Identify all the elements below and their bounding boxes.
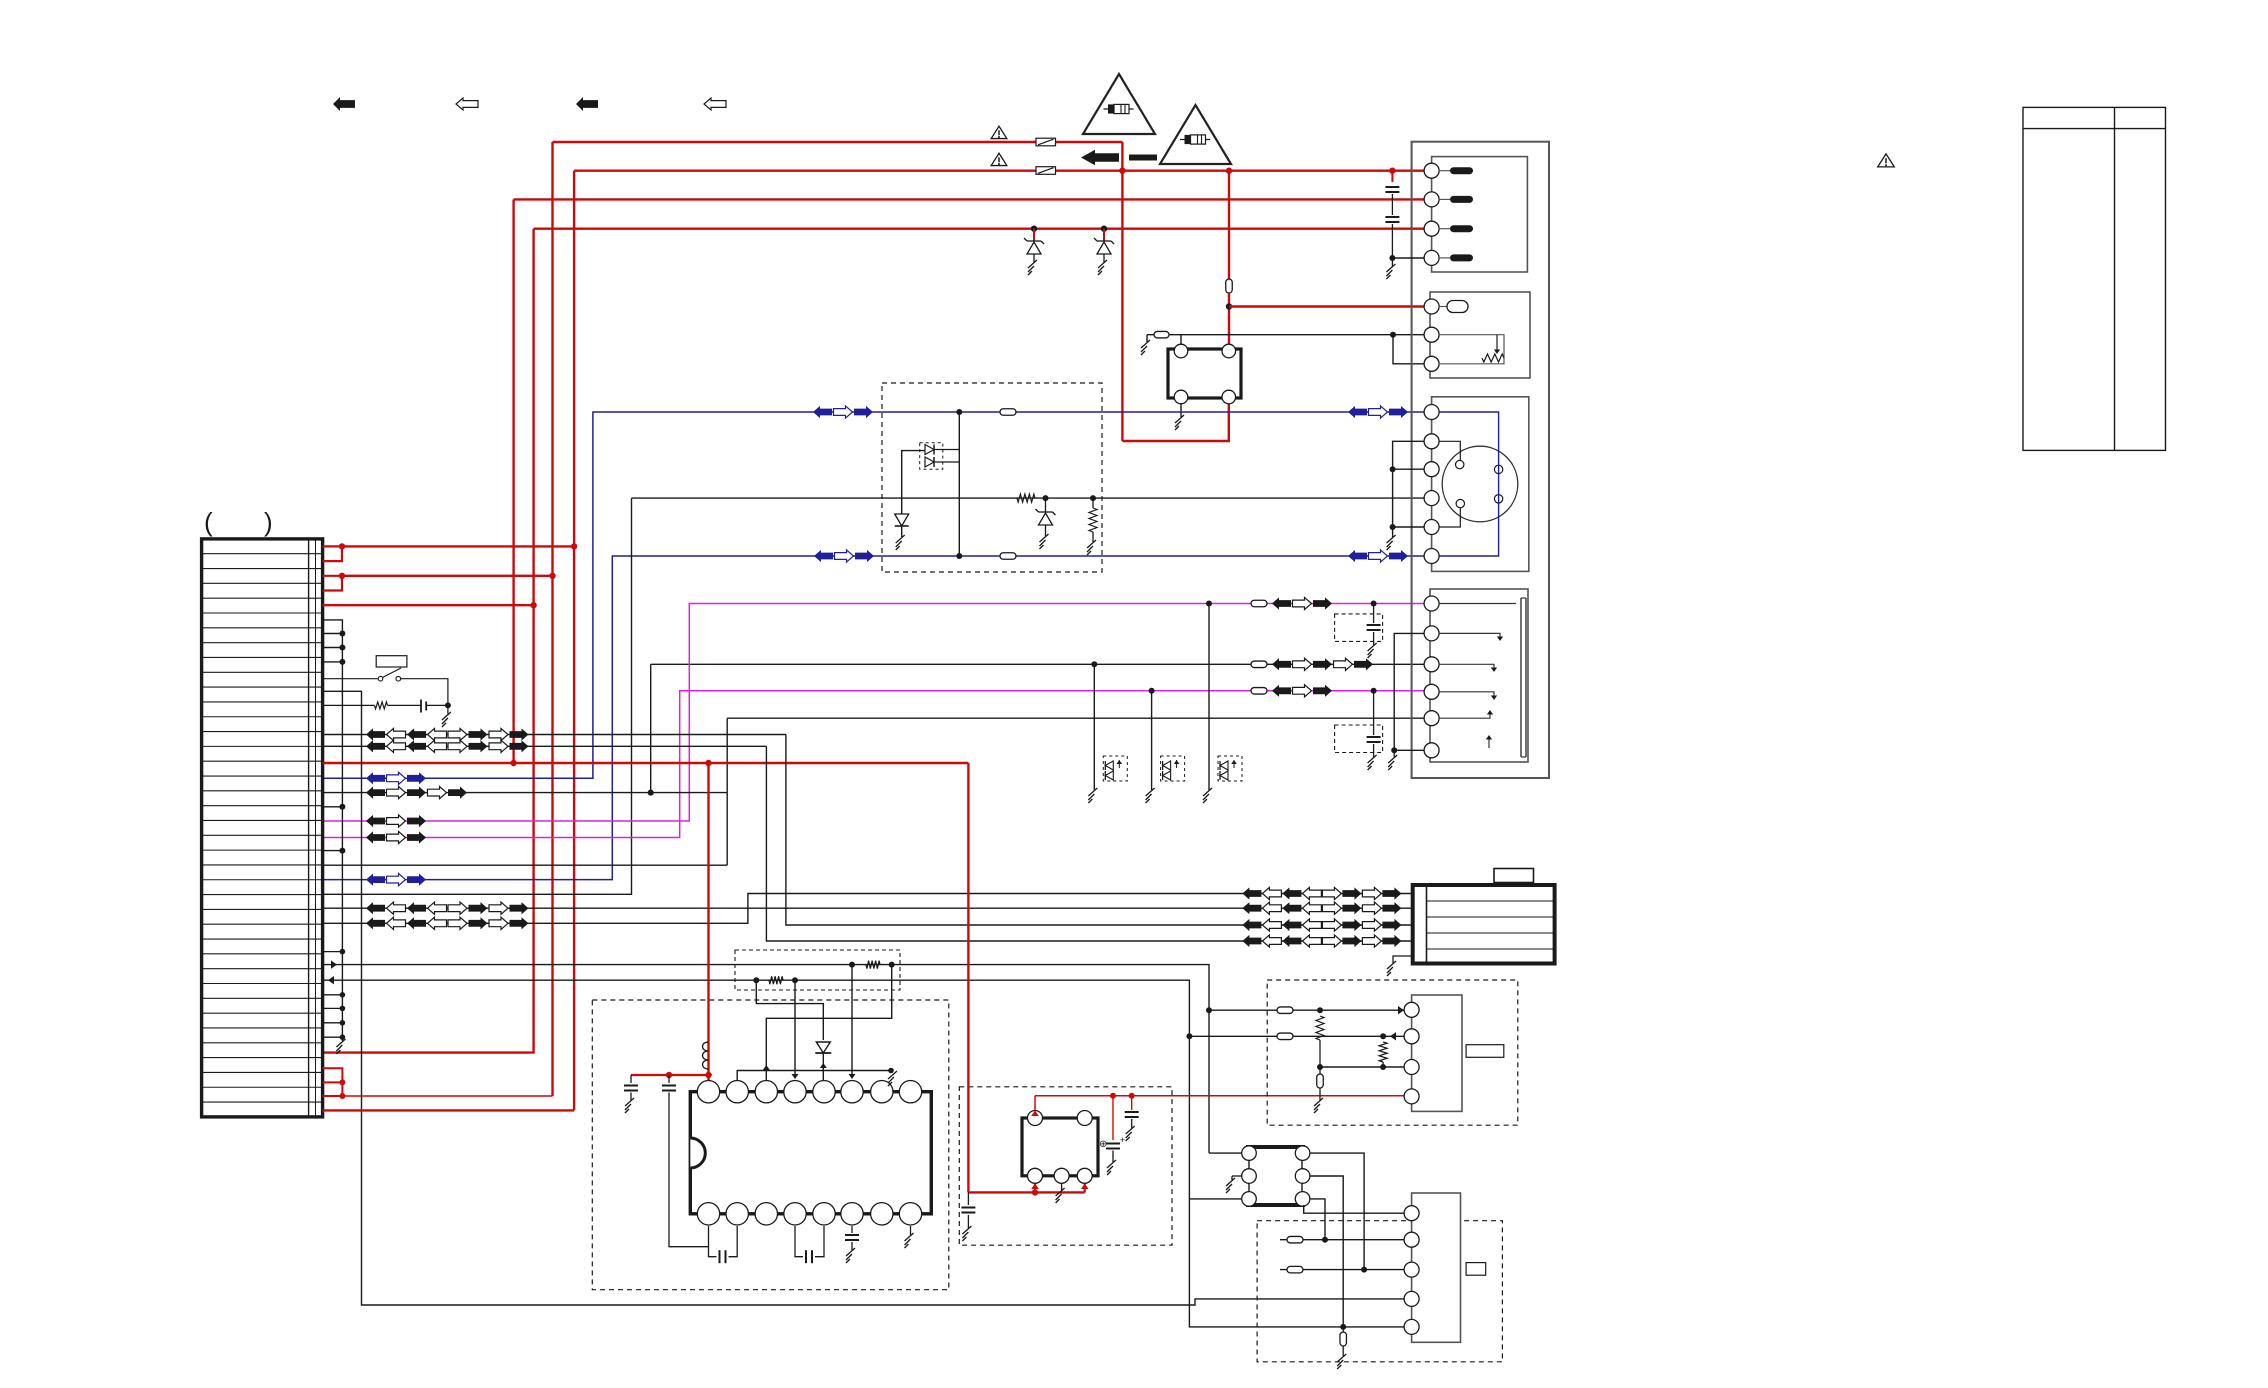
connector J1 pin 4	[1404, 1089, 1419, 1104]
capacitor CN1 2	[1391, 194, 1393, 215]
IC U1 pin bottom 15	[726, 1203, 748, 1225]
relay RY1 body	[1168, 349, 1241, 398]
wire red cap branch	[631, 1074, 709, 1076]
IC U1 pin top 7	[871, 1081, 893, 1103]
wire IC pin2 to ground rail	[737, 1071, 891, 1081]
wire red vertical to resistor and CN2 pin1	[1228, 171, 1230, 279]
wire red R4 horizontal to CN pin3	[534, 227, 1425, 229]
resistor Rb	[849, 962, 855, 968]
thermistor CN2	[1439, 335, 1504, 364]
resistor pill J2 ground	[1342, 1327, 1344, 1332]
battery warning triangle T2	[1160, 105, 1231, 164]
resistor Ra	[753, 977, 759, 983]
capacitor Cb	[668, 1075, 670, 1083]
capacitor box CN4 lower	[1335, 725, 1383, 753]
arrow train motor right 2	[1242, 902, 1261, 914]
wire red R2 horizontal to CN pin1	[574, 169, 1424, 171]
relay pin bottom-left	[1174, 390, 1188, 404]
capacitor IC b1-b2	[709, 1226, 717, 1257]
wire J1 pin2 line	[1189, 1035, 1404, 1037]
thick arrow with dash	[1081, 150, 1119, 165]
wire magenta M2	[323, 691, 1424, 838]
arrow cluster blue net2 right	[1348, 550, 1367, 562]
IC U1 pin top 6	[841, 1081, 863, 1103]
connector arrow A2	[456, 98, 478, 110]
battery warning triangle T1	[1083, 74, 1155, 134]
wire black bracket CN3	[1393, 441, 1424, 537]
CN2 pin 1	[1424, 299, 1439, 314]
resistor pill blue net1	[1000, 409, 1016, 416]
IC main dashed box	[592, 1000, 949, 1290]
wire CN1 pin4	[1392, 257, 1424, 259]
relay pin top-left	[1174, 344, 1188, 358]
wire DIN pin5 link	[1439, 508, 1460, 527]
wire black line 718 to CN4 pin5	[727, 717, 1424, 719]
wire CN4 pin3 inside	[1439, 664, 1494, 669]
IC U1 body	[690, 1092, 931, 1214]
IC U3 pin left 3	[1242, 1192, 1257, 1207]
diode on line-b	[1043, 495, 1049, 501]
wire red bus D	[323, 762, 969, 764]
switch S1	[323, 678, 378, 680]
wire opto vertical	[958, 412, 960, 556]
svg-text:+: +	[1120, 1135, 1125, 1145]
connector J2 label	[1466, 1263, 1486, 1276]
svg-text:): )	[264, 507, 273, 537]
IC U1 pin bottom 9	[899, 1203, 921, 1225]
arrow train motor right 3	[1242, 919, 1261, 931]
wire J1 pin1 line	[1209, 1009, 1404, 1011]
arrow train row motor1	[323, 894, 1413, 924]
wire IC pin3 network	[766, 965, 891, 1065]
wire J2 pin2 line	[1280, 1239, 1404, 1241]
svg-text:(: (	[204, 507, 213, 537]
ground CN4	[1393, 750, 1395, 757]
IC U1 pin top 2	[726, 1081, 748, 1103]
wire red vertical drop V1	[551, 142, 553, 1096]
wire red R3 horizontal to CN pin2	[514, 198, 1425, 200]
DIN pin BL	[1456, 499, 1464, 507]
IC U1 pin bottom 13	[784, 1203, 806, 1225]
CN4 pin 3	[1424, 657, 1439, 672]
resistor pill magenta M1	[1251, 600, 1267, 607]
CN4 pin 6	[1424, 743, 1439, 758]
DIN pin BR	[1494, 495, 1502, 503]
capacitor Ca	[630, 1075, 632, 1083]
wire black u-link 865	[323, 864, 728, 866]
connector arrow A4	[704, 98, 726, 110]
parts table	[2023, 107, 2166, 450]
ground regulator BM	[1061, 1184, 1063, 1191]
wire black line-b to DIN pin4	[632, 497, 1425, 499]
wire red 1110 to V2	[323, 1109, 574, 1111]
CN2 pin 2	[1424, 327, 1439, 342]
DIN socket circle	[1442, 446, 1518, 522]
connector J1 label	[1466, 1045, 1504, 1058]
connector J2 pin 5	[1404, 1319, 1419, 1334]
resistor switch row	[323, 704, 375, 706]
wire black CN2 pin3 branch	[1393, 335, 1424, 364]
wire Cb to IC bottom	[669, 1093, 709, 1247]
connector J1 dashed box	[1267, 980, 1518, 1125]
resistor pill J1 ground	[1319, 1067, 1321, 1074]
IC U1 pin bottom 14	[755, 1203, 777, 1225]
wire line 980 from connector	[323, 980, 1190, 1199]
CN4 pin 1	[1424, 596, 1439, 611]
wire red BR arrow	[1084, 1184, 1086, 1192]
lamp symbol CN2	[1439, 306, 1447, 308]
connector block CN2 box	[1430, 292, 1530, 378]
arrow train row motor2	[323, 907, 1413, 909]
wire red TL to J1 pin4	[1034, 1096, 1036, 1111]
DIN pin TL	[1456, 460, 1464, 468]
relay pin top-right	[1222, 344, 1236, 358]
arrow cluster magenta M2 left	[366, 831, 385, 843]
wire CN4 pin5 inside	[1439, 713, 1490, 718]
fuse F1	[1036, 138, 1056, 146]
CN1 pin 2	[1424, 192, 1439, 207]
wire U3 R1 to J2 pin3	[1310, 1153, 1364, 1270]
ground motor	[1393, 956, 1413, 963]
motor M body	[1413, 885, 1555, 964]
CN3 pin 3	[1424, 462, 1439, 477]
wire red jumper rows1-2	[323, 545, 342, 547]
arrow train motor right 1	[1242, 887, 1261, 899]
wire red bus A	[342, 545, 574, 547]
wire motor line3	[786, 735, 1413, 926]
zener diode Z2	[1101, 226, 1107, 232]
IC U1 pin bottom 10	[871, 1203, 893, 1225]
warning triangle W1	[991, 126, 1007, 138]
CN1 pin 2 blade	[1439, 198, 1450, 200]
capacitor CN1 1	[1389, 168, 1395, 174]
wire red bus C	[323, 604, 534, 606]
connector block CN4 box	[1430, 589, 1528, 762]
capacitor reg 1	[1131, 1096, 1133, 1110]
IC U1 pin top 5	[813, 1081, 835, 1103]
IC U3 pin left 1	[1242, 1146, 1257, 1161]
IC U1 pin bottom 12	[813, 1203, 835, 1225]
wire red jumper rows3-4	[323, 575, 342, 577]
wire U3 R2 to J2 pin5	[1310, 1176, 1343, 1327]
wire red bottom jumper rows	[323, 1068, 343, 1096]
wire J2 pin5 line	[1189, 1199, 1404, 1327]
resistor pill magenta M2	[1251, 688, 1267, 695]
wire magenta M1	[323, 604, 1424, 822]
connector J2 pin 3	[1404, 1262, 1419, 1277]
wire CN4 pin1 inside	[1439, 603, 1516, 605]
wire black vertical 650 line to 664	[650, 664, 652, 792]
wire IC pin6 drop	[851, 965, 853, 1074]
arrow cluster blue net1 right	[1348, 406, 1367, 418]
wire black line 664 to CN4	[651, 663, 1424, 665]
arrow cluster blue net1 left	[366, 772, 385, 784]
wire relay coil ground	[1180, 403, 1182, 417]
inductor bead on supply	[703, 1042, 709, 1069]
wire J1 pin3 line	[1320, 1066, 1404, 1068]
diode on pin5 riser	[816, 1042, 830, 1053]
capacitor IC b4-b5	[795, 1226, 803, 1257]
IC U1 pin top 8	[899, 1081, 921, 1103]
wire opto LED to diode	[902, 451, 925, 514]
svg-text:⊕: ⊕	[1099, 1139, 1107, 1150]
capacitor IC b6	[851, 1226, 853, 1233]
wire black to L1	[1209, 1152, 1249, 1154]
wire black CN4 bracket	[1394, 633, 1424, 750]
wire blue net1 from connector	[323, 412, 1424, 778]
resistor J1 vertical 2	[1379, 1042, 1387, 1062]
wire red R1 horizontal	[553, 141, 1123, 143]
wire blue DIN loop	[1439, 412, 1499, 556]
main board connector body	[202, 539, 323, 1117]
connector arrow A1	[333, 97, 355, 111]
connector block CN1 box	[1432, 157, 1528, 272]
connector J2 pin 2	[1404, 1232, 1419, 1247]
resistor pill line 664	[1251, 661, 1267, 668]
wire J2 pin1 line	[1304, 1205, 1404, 1213]
regulator pin BM	[1054, 1168, 1069, 1183]
regulator pin BL	[1028, 1168, 1043, 1183]
photo-LED pair box	[920, 443, 943, 470]
wire IC pin4 drop	[794, 980, 796, 1074]
connector J1 pin 2	[1404, 1029, 1419, 1044]
CN1 pin 4	[1424, 250, 1439, 265]
wire red relay bottom loop	[1122, 398, 1228, 441]
wire black to L3	[1189, 1198, 1249, 1200]
IC U3 pin left 2	[1242, 1169, 1257, 1184]
relay pin bottom-right	[1222, 390, 1236, 404]
CN1 pin 1 blade	[1439, 170, 1450, 172]
CN4 pin 4	[1424, 684, 1439, 699]
fuse F2	[1036, 167, 1056, 175]
resistor pill blue net2	[1000, 553, 1016, 560]
connector J2 dashed box	[1257, 1221, 1502, 1362]
connector J1 pin 3	[1404, 1060, 1419, 1075]
arrow cluster blue net2 left	[366, 874, 385, 886]
arrow up CN4	[1488, 737, 1490, 748]
wire bottom rows stubs	[323, 951, 343, 953]
warning triangle W2	[991, 153, 1007, 165]
resistor zigzag on line-b	[1017, 494, 1035, 502]
CN1 pin 3 blade	[1439, 228, 1450, 230]
wire red regulator feed vertical	[967, 763, 969, 1192]
photocoupler pair P2	[1151, 691, 1153, 790]
cassette head bar	[1520, 598, 1522, 757]
wire black vertical 727	[726, 718, 728, 865]
motor label box	[1494, 869, 1534, 883]
capacitor below regulator feed	[967, 1192, 969, 1205]
IC U3 pin right 5	[1295, 1169, 1310, 1184]
capacitor box CN4 upper	[1335, 614, 1383, 642]
wire red vertical drop V4	[323, 229, 534, 1053]
wire red BL arrow	[1034, 1184, 1036, 1192]
regulator pin TL	[1028, 1111, 1043, 1126]
CN3 pin 6	[1424, 549, 1439, 564]
red arrow into IC pin1	[705, 1074, 713, 1080]
arrow cluster magenta M2 right	[1272, 685, 1291, 697]
wire blue net2 from connector	[323, 556, 1424, 880]
resistor vertical on line-b	[1090, 495, 1096, 501]
CN3 pin 5	[1424, 520, 1439, 535]
CN3 pin 2	[1424, 434, 1439, 449]
capacitor series switch row	[420, 700, 422, 713]
arrow cluster blue net1 mid	[813, 406, 832, 418]
CN1 pin 1	[1424, 163, 1439, 178]
wire IC pin5 network	[756, 980, 823, 1040]
junction red R1/R2 relay feed	[1121, 142, 1123, 441]
capacitor reg polarized	[1112, 1096, 1114, 1140]
connector arrow A3	[576, 97, 598, 111]
ground IC b8	[910, 1226, 912, 1235]
DIN pin TR	[1494, 465, 1502, 473]
optocoupler module dashed box	[882, 383, 1102, 572]
ground switch row	[447, 705, 449, 714]
resistor J1 vertical 1	[1316, 1016, 1324, 1040]
zener diode Z1	[1031, 226, 1037, 232]
arrow cluster magenta M1 right	[1272, 597, 1291, 609]
wire CN4 pin2 inside	[1439, 633, 1500, 638]
wire long bottom to J2 pin4	[323, 691, 1404, 1305]
ground CN1	[1391, 258, 1393, 266]
regulator U2 body	[1022, 1118, 1098, 1176]
IC U3 body	[1249, 1147, 1302, 1205]
CN2 pin 3	[1424, 356, 1439, 371]
wire red thin 1095 to V1	[342, 1095, 552, 1097]
connector block CN3 box	[1432, 397, 1529, 572]
wire black vertical 631 to row 894	[323, 498, 632, 894]
arrow train row14	[323, 745, 767, 747]
wire line 964 from connector	[323, 965, 1209, 1154]
CN3 pin 1	[1424, 405, 1439, 420]
IC U3 pin right 6	[1295, 1146, 1310, 1161]
arrow cluster line 664	[1272, 658, 1291, 670]
connector J2 pin 4	[1404, 1291, 1419, 1306]
arrow cluster magenta M1 left	[366, 815, 385, 827]
wire J2 pin3 line	[1280, 1269, 1404, 1271]
connector J2 body	[1412, 1193, 1461, 1342]
wire black rows 5-8 bus	[323, 620, 343, 1037]
arrow train row13	[323, 734, 786, 736]
ground CN3	[1387, 535, 1396, 550]
wire DIN pin2 link	[1439, 441, 1460, 460]
photocoupler pair P3	[1208, 604, 1210, 791]
connector J2 pin 1	[1404, 1206, 1419, 1221]
wire black relay control to CN2 pin2	[1180, 335, 1182, 345]
resistor pill R relay	[1154, 331, 1169, 338]
arrow cluster blue net2 mid	[814, 550, 833, 562]
diode D opto	[895, 514, 909, 526]
IC U1 pin top 4	[784, 1081, 806, 1103]
feedback resistor dashed box	[735, 950, 900, 990]
warning triangle W3	[1878, 154, 1895, 167]
CN3 pin 4	[1424, 491, 1439, 506]
wire red to CN2 pin1	[1229, 305, 1424, 307]
regulator dashed box	[959, 1087, 1172, 1245]
CN4 pin 2	[1424, 626, 1439, 641]
wire red vertical drop V2	[573, 171, 575, 1111]
arrow cluster row17	[323, 792, 728, 794]
regulator pin BR	[1077, 1168, 1092, 1183]
IC U1 pin bottom 11	[841, 1203, 863, 1225]
CN1 pin 4 blade	[1439, 257, 1450, 259]
IC U1 pin top 3	[755, 1081, 777, 1103]
IC U3 pin right 4	[1295, 1192, 1310, 1207]
wire motor line4	[766, 746, 1412, 941]
wire red vertical drop V3	[512, 199, 514, 763]
photocoupler pair P1	[1093, 664, 1095, 790]
wire red bus B	[342, 575, 553, 577]
CN1 pin 3	[1424, 221, 1439, 236]
regulator pin TR	[1077, 1111, 1092, 1126]
resistor pill on red vertical	[1226, 279, 1233, 293]
ground U3 L2	[1232, 1175, 1242, 1177]
switch S1 box	[376, 656, 407, 667]
CN4 pin 5	[1424, 711, 1439, 726]
wire red regulator bottom	[968, 1191, 1084, 1193]
connector J1 body	[1412, 995, 1462, 1111]
wire CN4 pin4 inside	[1439, 692, 1494, 697]
wire red IC supply vertical	[707, 763, 709, 1081]
ground at relay resistor	[1146, 335, 1148, 342]
connector J1 pin 1	[1404, 1002, 1419, 1017]
right panel outer frame	[1412, 142, 1549, 778]
arrow train motor right 4	[1242, 935, 1261, 947]
wire U3 R3 to J2 pin2	[1310, 1199, 1325, 1240]
IC U1 pin top 1	[697, 1081, 719, 1103]
IC U1 pin bottom 16	[697, 1203, 719, 1225]
